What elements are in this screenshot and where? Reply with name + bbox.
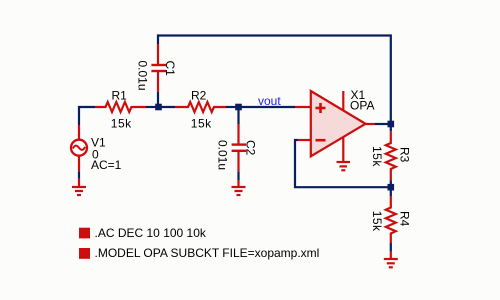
- svg-text:0.01u: 0.01u: [135, 61, 149, 91]
- svg-text:.AC DEC 10 100 10k: .AC DEC 10 100 10k: [95, 226, 207, 240]
- svg-text:R1: R1: [112, 89, 128, 103]
- svg-text:R4: R4: [398, 211, 412, 227]
- svg-text:15k: 15k: [370, 211, 384, 232]
- svg-text:R2: R2: [191, 89, 207, 103]
- svg-text:OPA: OPA: [350, 99, 374, 113]
- svg-text:0.01u: 0.01u: [215, 140, 229, 170]
- svg-text:R3: R3: [398, 147, 412, 163]
- svg-text:C1: C1: [163, 61, 177, 77]
- svg-text:15k: 15k: [191, 117, 212, 131]
- svg-text:vout: vout: [258, 94, 281, 108]
- svg-text:AC=1: AC=1: [91, 158, 122, 172]
- svg-text:C2: C2: [244, 140, 258, 156]
- svg-text:15k: 15k: [370, 146, 384, 167]
- svg-text:15k: 15k: [111, 117, 132, 131]
- svg-text:.MODEL OPA SUBCKT FILE=xopamp.: .MODEL OPA SUBCKT FILE=xopamp.xml: [95, 246, 320, 260]
